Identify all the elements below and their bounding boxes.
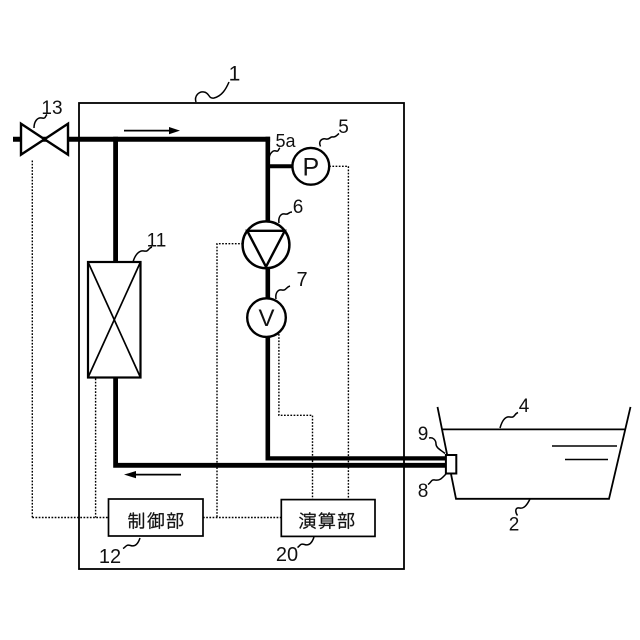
wire: pipe from V to tank nozzle (upper)	[266, 456, 447, 460]
label 11	[133, 231, 166, 263]
heat exchanger 11	[88, 262, 141, 378]
water shade line	[565, 459, 608, 461]
dotted control line: valve 13 to controller	[31, 161, 33, 518]
flow arrow (top, rightward)	[124, 127, 180, 134]
flow arrow (bottom, leftward)	[124, 471, 181, 478]
svg-text:11: 11	[147, 231, 167, 252]
svg-text:7: 7	[296, 269, 307, 291]
svg-text:5a: 5a	[275, 131, 296, 151]
label 8	[418, 474, 446, 502]
svg-text:6: 6	[293, 197, 304, 218]
label 9	[418, 424, 445, 454]
dotted line: pressure sensor 5 to calculator	[329, 166, 348, 499]
label 13	[34, 98, 63, 128]
label 2	[509, 499, 530, 536]
dotted line: controller to calculator	[203, 517, 281, 519]
pressure sensor P (5)	[267, 148, 329, 185]
svg-text:1: 1	[229, 63, 241, 86]
nozzle 8/9	[446, 455, 456, 474]
svg-text:12: 12	[99, 546, 121, 568]
dotted control line: pump 6 to bus	[217, 244, 243, 518]
wire: return pipe from tank to heat exchanger (lower)	[116, 137, 446, 466]
label 6	[279, 197, 303, 223]
label: controller text	[128, 512, 183, 529]
label 20	[276, 537, 314, 566]
dotted line: flow sensor 7 (V) to calculator	[279, 334, 313, 500]
svg-text:13: 13	[41, 98, 62, 119]
svg-text:8: 8	[418, 481, 429, 502]
wire: riser through P/pump/V	[265, 137, 270, 461]
tank 2	[438, 407, 631, 499]
label 7	[276, 269, 308, 299]
svg-text:V: V	[258, 305, 274, 332]
water surface 4	[442, 428, 625, 430]
svg-text:2: 2	[509, 515, 520, 536]
pump 6	[243, 221, 290, 268]
controller box 12	[109, 499, 204, 536]
svg-text:4: 4	[519, 396, 530, 417]
label 4	[500, 396, 530, 428]
valve 13	[21, 124, 68, 155]
flow sensor V (7)	[247, 298, 286, 337]
label 5	[320, 117, 349, 147]
svg-text:P: P	[302, 153, 319, 181]
label 12	[99, 538, 140, 568]
dotted control line: heat exchanger 11 to controller	[95, 379, 97, 518]
wire: supply pipe top run	[13, 137, 270, 142]
label 1	[196, 63, 241, 103]
label: calculator text	[299, 512, 354, 529]
enclosure box 1	[79, 103, 404, 569]
water shade line	[552, 445, 617, 447]
svg-text:9: 9	[418, 424, 429, 445]
label 5a	[269, 131, 296, 158]
svg-text:5: 5	[338, 117, 349, 138]
svg-text:20: 20	[276, 544, 298, 566]
calculator box 20	[281, 500, 375, 537]
